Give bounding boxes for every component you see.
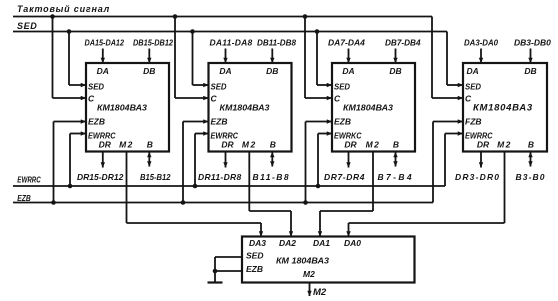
svg-text:SED: SED xyxy=(88,82,104,92)
svg-text:Тактовый сигнал: Тактовый сигнал xyxy=(17,4,110,14)
svg-text:FZB: FZB xyxy=(465,117,482,127)
svg-text:DA0: DA0 xyxy=(344,238,361,248)
svg-text:EZB: EZB xyxy=(88,117,105,127)
svg-text:DR: DR xyxy=(477,140,490,150)
svg-text:DB: DB xyxy=(389,66,401,76)
svg-text:DA: DA xyxy=(467,66,479,76)
svg-text:B11-B8: B11-B8 xyxy=(253,172,291,182)
svg-text:C: C xyxy=(334,94,341,104)
svg-text:DR3-DR0: DR3-DR0 xyxy=(455,172,500,182)
svg-text:B7-B4: B7-B4 xyxy=(378,172,415,182)
svg-text:M2: M2 xyxy=(366,140,381,150)
svg-text:DB: DB xyxy=(143,66,155,76)
svg-text:SED: SED xyxy=(246,251,263,261)
svg-text:DB7-DB4: DB7-DB4 xyxy=(385,38,421,48)
svg-text:B: B xyxy=(270,140,276,150)
svg-text:DA7-DA4: DA7-DA4 xyxy=(328,38,365,48)
svg-text:DA3-DA0: DA3-DA0 xyxy=(464,38,498,48)
svg-text:SED: SED xyxy=(17,21,37,31)
svg-text:DB11-DB8: DB11-DB8 xyxy=(257,38,296,48)
svg-text:M2: M2 xyxy=(119,140,134,150)
svg-text:DA11-DA8: DA11-DA8 xyxy=(210,38,253,48)
svg-text:B: B xyxy=(528,140,534,150)
svg-text:DB: DB xyxy=(266,66,278,76)
svg-text:DB: DB xyxy=(524,66,536,76)
svg-text:DA3: DA3 xyxy=(249,238,266,248)
svg-text:DR7-DR4: DR7-DR4 xyxy=(324,172,365,182)
svg-text:КМ1804ВА3: КМ1804ВА3 xyxy=(220,103,270,113)
svg-text:C: C xyxy=(88,94,95,104)
svg-text:DR: DR xyxy=(99,140,112,150)
svg-text:DR: DR xyxy=(221,140,234,150)
svg-text:DA1: DA1 xyxy=(313,238,330,248)
svg-text:M2: M2 xyxy=(313,287,327,298)
svg-text:DB3-DB0: DB3-DB0 xyxy=(514,38,551,48)
svg-text:C: C xyxy=(211,94,218,104)
svg-text:EZB: EZB xyxy=(211,117,228,127)
svg-text:DA: DA xyxy=(219,66,231,76)
svg-text:M2: M2 xyxy=(242,140,257,150)
svg-text:B15-B12: B15-B12 xyxy=(140,172,171,182)
svg-text:C: C xyxy=(465,94,472,104)
svg-text:КМ 1804ВА3: КМ 1804ВА3 xyxy=(276,256,329,266)
svg-text:EZB: EZB xyxy=(246,264,263,274)
svg-text:DA2: DA2 xyxy=(279,238,296,248)
svg-text:DA: DA xyxy=(342,66,354,76)
svg-text:SED: SED xyxy=(334,82,350,92)
svg-text:DR: DR xyxy=(344,140,357,150)
svg-text:DA: DA xyxy=(97,66,109,76)
svg-text:EZB: EZB xyxy=(334,117,351,127)
svg-text:DR15-DR12: DR15-DR12 xyxy=(77,172,124,182)
svg-text:SED: SED xyxy=(211,82,227,92)
svg-text:КМ1804ВА3: КМ1804ВА3 xyxy=(97,103,147,113)
svg-text:DA15-DA12: DA15-DA12 xyxy=(85,38,125,48)
svg-text:EWRRC: EWRRC xyxy=(17,175,41,185)
svg-text:B: B xyxy=(393,140,399,150)
svg-text:КМ1804ВА3: КМ1804ВА3 xyxy=(473,103,533,114)
svg-text:КМ1804ВА3: КМ1804ВА3 xyxy=(343,103,393,113)
svg-text:M2: M2 xyxy=(497,140,512,150)
svg-text:M2: M2 xyxy=(303,269,315,279)
svg-text:DB15-DB12: DB15-DB12 xyxy=(133,38,173,48)
svg-text:EZB: EZB xyxy=(17,193,31,203)
svg-text:DR11-DR8: DR11-DR8 xyxy=(198,172,242,182)
svg-text:SED: SED xyxy=(465,82,481,92)
svg-text:B: B xyxy=(147,140,153,150)
svg-text:B3-B0: B3-B0 xyxy=(516,172,546,182)
